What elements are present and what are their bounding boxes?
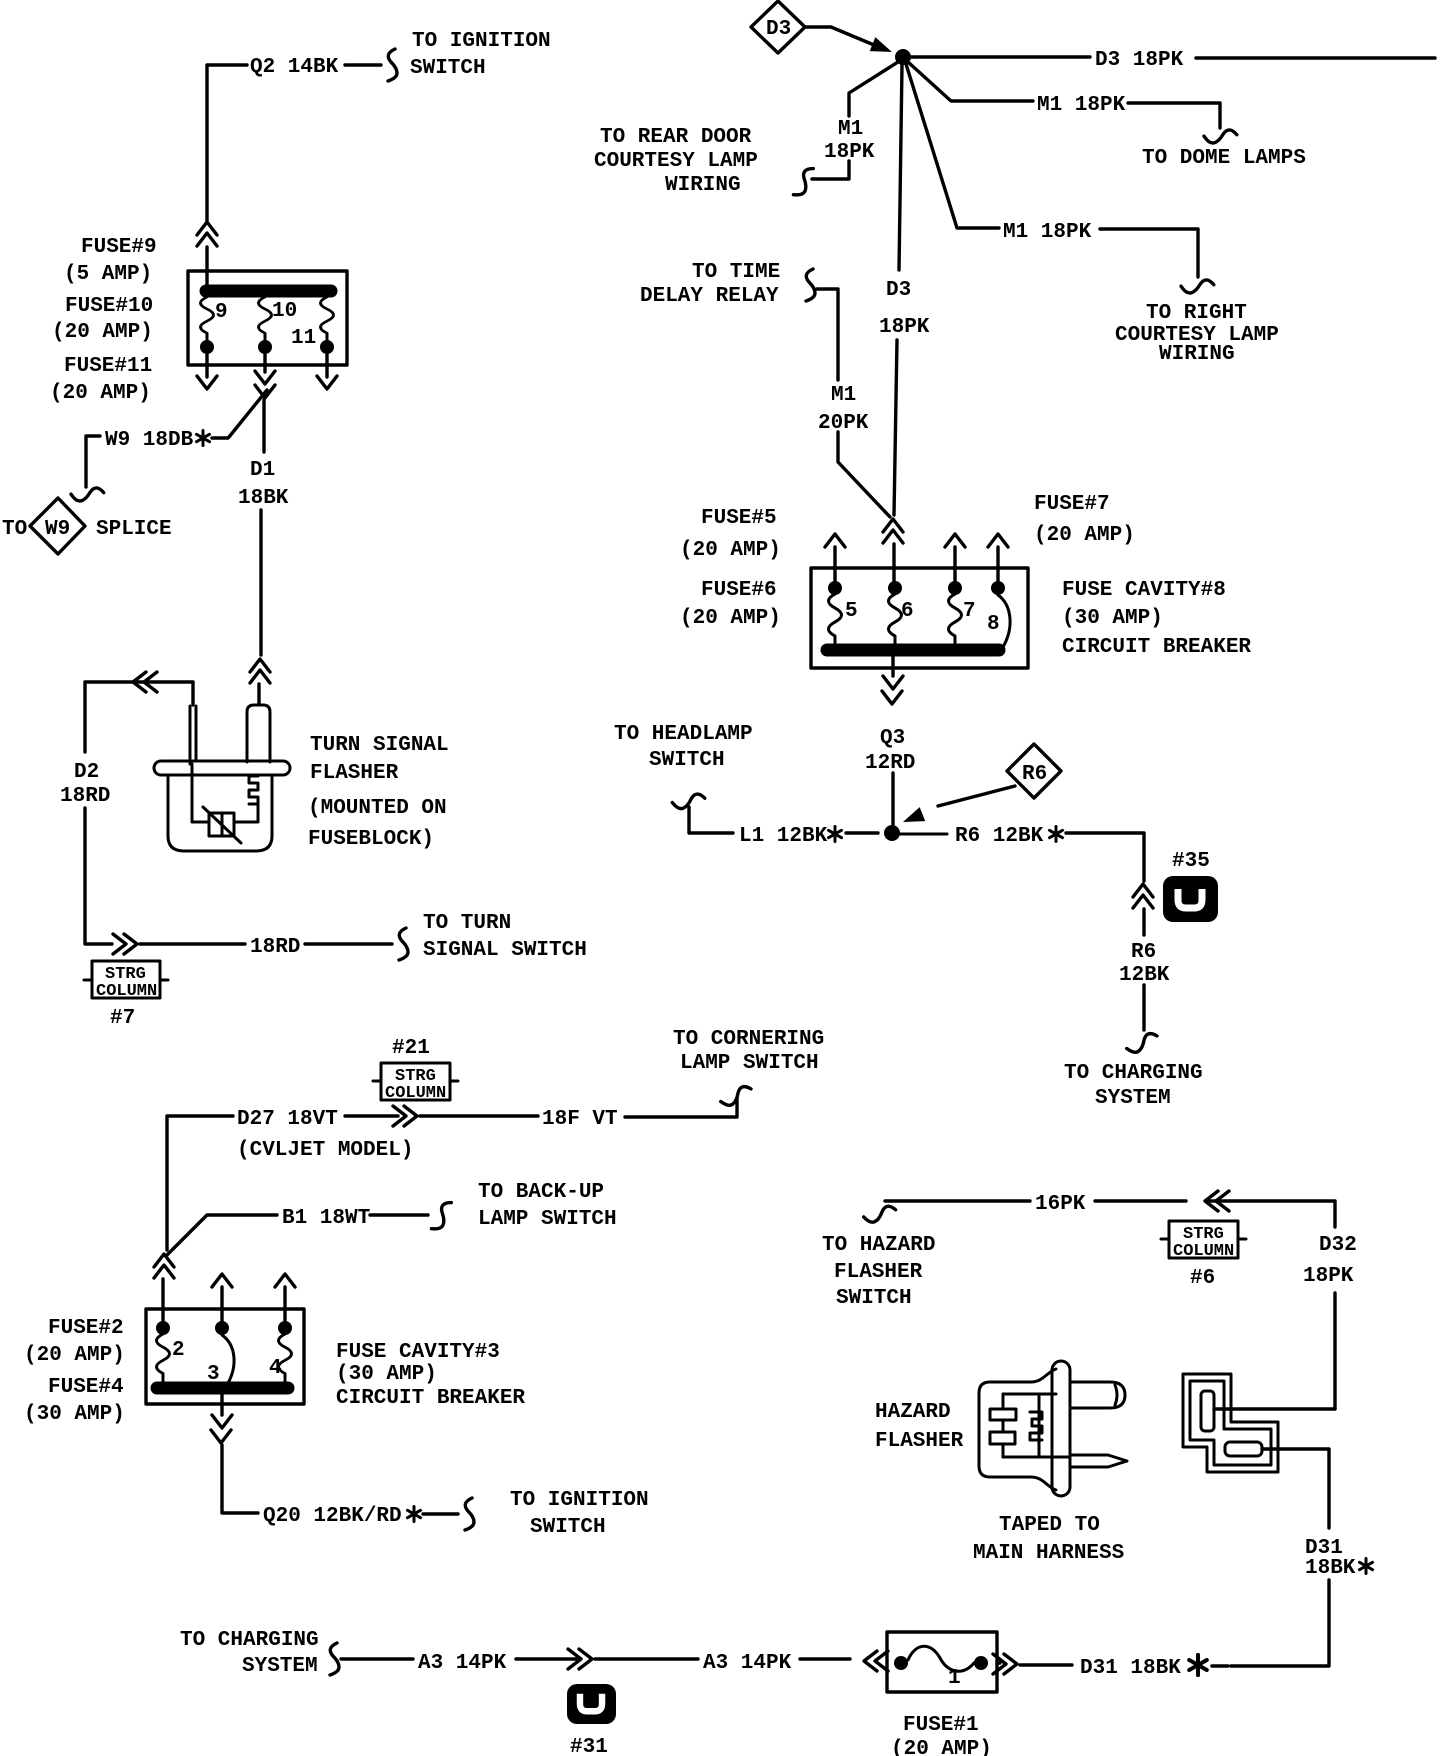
wire Q3 12RD	[891, 657, 894, 676]
wire 16PK to hazard flasher switch	[885, 1199, 1030, 1202]
svg-text:TAPED TO: TAPED TO	[999, 1514, 1100, 1537]
svg-text:FUSE#2: FUSE#2	[48, 1317, 124, 1340]
svg-text:R6: R6	[1022, 763, 1047, 786]
hazard flasher body	[979, 1369, 1056, 1490]
svg-text:18RD: 18RD	[60, 785, 110, 808]
svg-text:2: 2	[172, 1339, 185, 1362]
wire D2 18RD from flasher	[85, 682, 193, 752]
wire R6 12BK right	[900, 833, 947, 836]
svg-text:COLUMN: COLUMN	[96, 982, 157, 1001]
fuse block 9-11 bus bar	[206, 285, 331, 298]
turn signal flasher body	[154, 761, 290, 775]
svg-text:18PK: 18PK	[879, 316, 930, 339]
svg-text:TO: TO	[2, 518, 27, 541]
svg-text:Q20 12BK/RD: Q20 12BK/RD	[263, 1505, 402, 1528]
svg-text:FLASHER: FLASHER	[834, 1261, 923, 1284]
svg-text:FUSE#11: FUSE#11	[64, 355, 152, 378]
svg-text:D3: D3	[766, 18, 791, 41]
fuse 4 feed arrow	[283, 1287, 286, 1321]
connector box STRG COLUMN #7	[92, 961, 160, 998]
wire M1 18PK to rear door courtesy lamp wiring	[849, 62, 898, 116]
fuse 7 feed arrow	[953, 547, 956, 581]
fuse block 9-11 outline	[188, 271, 347, 365]
connector chevron at fuse 6	[883, 519, 903, 543]
svg-text:SIGNAL SWITCH: SIGNAL SWITCH	[423, 939, 587, 962]
svg-text:FUSE#7: FUSE#7	[1034, 493, 1110, 516]
svg-text:COURTESY LAMP: COURTESY LAMP	[594, 150, 758, 173]
circuit breaker cavity 8 element	[991, 581, 1005, 595]
junction node D3	[895, 49, 911, 65]
svg-text:7: 7	[963, 600, 976, 623]
cavity 8 feed arrow	[996, 547, 999, 581]
svg-text:FUSE#4: FUSE#4	[48, 1376, 124, 1399]
svg-text:16PK: 16PK	[1035, 1193, 1086, 1216]
svg-text:R6 12BK: R6 12BK	[955, 825, 1044, 848]
splice pointer R6	[1007, 744, 1061, 798]
svg-text:W9: W9	[45, 518, 70, 541]
svg-text:FLASHER: FLASHER	[310, 762, 399, 785]
svg-text:A3 14PK: A3 14PK	[703, 1652, 792, 1675]
svg-text:TO RIGHT: TO RIGHT	[1146, 302, 1247, 325]
svg-text:TO CORNERING: TO CORNERING	[673, 1028, 824, 1051]
wire Q2 14BK to ignition switch	[207, 65, 247, 222]
svg-text:D31 18BK: D31 18BK	[1080, 1657, 1181, 1680]
svg-text:FUSEBLOCK): FUSEBLOCK)	[308, 828, 434, 851]
svg-text:M1: M1	[831, 384, 856, 407]
fuse block 2-4 outline	[146, 1309, 304, 1404]
svg-text:D32: D32	[1319, 1234, 1357, 1257]
svg-text:FUSE#5: FUSE#5	[701, 507, 777, 530]
fuse 4 element	[278, 1321, 292, 1335]
fuse 5 element	[828, 581, 842, 595]
svg-text:#7: #7	[110, 1007, 135, 1030]
svg-text:D1: D1	[250, 459, 275, 482]
grommet icon #31	[567, 1684, 616, 1724]
svg-text:M1: M1	[838, 118, 863, 141]
wire D31 18BK from fuse 1	[997, 1661, 1000, 1664]
svg-text:SPLICE: SPLICE	[96, 518, 172, 541]
svg-text:#35: #35	[1172, 850, 1210, 873]
svg-text:18BK: 18BK	[238, 487, 289, 510]
fuse 7 element	[948, 581, 962, 595]
fuse block 5-8 bus bar	[827, 644, 999, 657]
svg-text:11: 11	[291, 327, 316, 350]
svg-text:FUSE CAVITY#8: FUSE CAVITY#8	[1062, 579, 1226, 602]
wire W9 18DB tap	[229, 390, 267, 437]
cavity 3 feed arrow	[220, 1287, 223, 1321]
svg-text:(5 AMP): (5 AMP)	[64, 263, 152, 286]
hazard flasher bottom prong	[1070, 1455, 1127, 1467]
fuse 6 element	[888, 581, 902, 595]
wire D27 18VT to cornering lamp switch	[167, 1116, 233, 1250]
svg-text:Q3: Q3	[880, 727, 905, 750]
fuse 2 element	[156, 1321, 170, 1335]
hazard flasher internal terminals	[1038, 1394, 1041, 1457]
connector chevron to steering column	[113, 934, 137, 954]
svg-text:(20 AMP): (20 AMP)	[891, 1738, 992, 1756]
svg-text:WIRING: WIRING	[665, 174, 741, 197]
fuse 10 element	[259, 297, 272, 340]
svg-text:(CVLJET MODEL): (CVLJET MODEL)	[237, 1139, 413, 1162]
flasher right pin	[247, 705, 270, 762]
fuse 10 output wire D1	[263, 354, 266, 372]
svg-text:3: 3	[207, 1363, 220, 1386]
wire M1 18PK to dome lamps	[908, 62, 1033, 101]
fuse block 2-4 bus bar	[157, 1382, 288, 1395]
connector chevron #35	[1133, 884, 1153, 908]
svg-text:M1 18PK: M1 18PK	[1037, 94, 1126, 117]
hazard flasher mounting flange	[1052, 1361, 1070, 1496]
svg-text:TO HAZARD: TO HAZARD	[822, 1234, 935, 1257]
svg-text:9: 9	[215, 301, 228, 324]
connector chevron steering column #6	[1205, 1191, 1229, 1211]
svg-text:D3 18PK: D3 18PK	[1095, 49, 1184, 72]
svg-text:18PK: 18PK	[1303, 1265, 1354, 1288]
svg-text:(20 AMP): (20 AMP)	[50, 382, 151, 405]
flasher heater coil	[249, 776, 258, 804]
svg-text:W9 18DB: W9 18DB	[105, 429, 194, 452]
connector box STRG COLUMN #6	[1169, 1221, 1238, 1258]
svg-text:(20 AMP): (20 AMP)	[24, 1344, 125, 1367]
wire M1 18PK to right courtesy lamp wiring	[906, 64, 999, 228]
svg-text:LAMP SWITCH: LAMP SWITCH	[478, 1208, 617, 1231]
svg-text:FUSE#6: FUSE#6	[701, 579, 777, 602]
svg-text:(20 AMP): (20 AMP)	[52, 321, 153, 344]
connector chevron #31	[568, 1649, 592, 1669]
svg-text:R6: R6	[1131, 941, 1156, 964]
grommet icon #35	[1163, 876, 1218, 922]
svg-text:A3 14PK: A3 14PK	[418, 1652, 507, 1675]
svg-text:(30 AMP): (30 AMP)	[336, 1363, 437, 1386]
svg-text:COLUMN: COLUMN	[1173, 1242, 1234, 1261]
svg-text:18RD: 18RD	[250, 936, 300, 959]
svg-text:D2: D2	[74, 761, 99, 784]
svg-text:TO DOME LAMPS: TO DOME LAMPS	[1142, 147, 1306, 170]
break to W9 splice	[71, 486, 104, 503]
wire Q20 12BK/RD to ignition switch	[220, 1395, 223, 1415]
svg-text:4: 4	[269, 1357, 282, 1380]
svg-text:(30 AMP): (30 AMP)	[24, 1403, 125, 1426]
harness break to turn signal switch	[399, 928, 408, 960]
flasher left pin	[190, 706, 196, 764]
svg-text:D27 18VT: D27 18VT	[237, 1108, 338, 1131]
svg-text:(20 AMP): (20 AMP)	[680, 607, 781, 630]
svg-text:20PK: 20PK	[818, 412, 869, 435]
svg-text:D3: D3	[886, 279, 911, 302]
connector box STRG COLUMN #21	[381, 1063, 450, 1100]
svg-text:L1 12BK: L1 12BK	[739, 825, 828, 848]
svg-text:8: 8	[987, 613, 1000, 636]
svg-text:SYSTEM: SYSTEM	[242, 1655, 318, 1678]
wire D1 18BK	[259, 510, 262, 655]
wire L1 12BK to headlamp switch	[846, 831, 878, 834]
svg-text:18F VT: 18F VT	[542, 1108, 618, 1131]
svg-text:M1 18PK: M1 18PK	[1003, 221, 1092, 244]
svg-text:FLASHER: FLASHER	[875, 1430, 964, 1453]
svg-text:TO BACK-UP: TO BACK-UP	[478, 1181, 604, 1204]
svg-text:(20 AMP): (20 AMP)	[1034, 524, 1135, 547]
fuse 9 output arrow	[205, 354, 208, 377]
svg-text:#21: #21	[392, 1037, 430, 1060]
svg-text:Q2 14BK: Q2 14BK	[250, 56, 339, 79]
splice pointer D3	[751, 1, 805, 53]
svg-text:TO TIME: TO TIME	[692, 261, 780, 284]
svg-text:DELAY RELAY: DELAY RELAY	[640, 285, 779, 308]
svg-text:10: 10	[272, 300, 297, 323]
svg-text:TURN SIGNAL: TURN SIGNAL	[310, 734, 449, 757]
svg-text:LAMP SWITCH: LAMP SWITCH	[680, 1052, 819, 1075]
svg-text:SYSTEM: SYSTEM	[1095, 1087, 1171, 1110]
svg-text:#6: #6	[1190, 1267, 1215, 1290]
svg-text:TO HEADLAMP: TO HEADLAMP	[614, 723, 753, 746]
harness break to ignition switch	[388, 49, 397, 81]
fuse 11 output arrow	[325, 354, 328, 377]
svg-text:TO IGNITION: TO IGNITION	[412, 30, 551, 53]
svg-text:TO TURN: TO TURN	[423, 912, 511, 935]
hazard flasher terminal clips	[1030, 1412, 1042, 1440]
svg-text:CIRCUIT BREAKER: CIRCUIT BREAKER	[336, 1387, 525, 1410]
svg-text:FUSE#10: FUSE#10	[65, 295, 153, 318]
hazard flasher top prong	[1070, 1382, 1125, 1408]
svg-text:6: 6	[901, 600, 914, 623]
svg-text:1: 1	[948, 1667, 961, 1690]
hazard flasher connector outline	[1183, 1374, 1278, 1472]
junction node L1/R6	[884, 825, 900, 841]
svg-text:TO CHARGING: TO CHARGING	[180, 1629, 319, 1652]
svg-text:FUSE#9: FUSE#9	[81, 236, 157, 259]
svg-text:12RD: 12RD	[865, 752, 915, 775]
connector chevron at fuse 2 feed	[154, 1254, 174, 1278]
fuse 9 element	[201, 297, 214, 340]
svg-text:FUSE CAVITY#3: FUSE CAVITY#3	[336, 1341, 500, 1364]
wire D31 18BK from connector	[1262, 1449, 1329, 1528]
svg-text:TO IGNITION: TO IGNITION	[510, 1489, 649, 1512]
fuse 11 element	[321, 297, 334, 340]
fuse 1 holder	[887, 1632, 997, 1692]
svg-text:MAIN HARNESS: MAIN HARNESS	[973, 1542, 1124, 1565]
wire D3 18PK down to fuse 6	[899, 65, 902, 270]
connector slot D32	[1201, 1391, 1214, 1431]
splice symbol W9	[30, 498, 85, 554]
svg-text:FUSE#1: FUSE#1	[903, 1714, 979, 1737]
svg-text:CIRCUIT BREAKER: CIRCUIT BREAKER	[1062, 636, 1251, 659]
svg-text:18BK: 18BK	[1305, 1557, 1356, 1580]
svg-text:5: 5	[845, 600, 858, 623]
svg-text:(30 AMP): (30 AMP)	[1062, 607, 1163, 630]
wire D32 into connector	[1214, 1407, 1335, 1410]
wire D3 18PK right	[911, 55, 1090, 58]
svg-text:COLUMN: COLUMN	[385, 1084, 446, 1103]
svg-text:(MOUNTED ON: (MOUNTED ON	[308, 797, 447, 820]
wire B1 18WT to back-up lamp switch	[167, 1215, 277, 1255]
svg-text:SWITCH: SWITCH	[410, 57, 486, 80]
svg-text:TO CHARGING: TO CHARGING	[1064, 1062, 1203, 1085]
svg-text:HAZARD: HAZARD	[875, 1401, 951, 1424]
connector chevron on Q2 wire	[197, 222, 217, 246]
svg-text:#31: #31	[570, 1736, 608, 1756]
svg-text:SWITCH: SWITCH	[836, 1287, 912, 1310]
connector chevron at fuse 1	[864, 1651, 888, 1671]
fuse block 5-8 outline	[811, 568, 1028, 668]
fuse 5 feed arrow	[833, 547, 836, 581]
circuit breaker cavity 3 element	[215, 1321, 229, 1335]
svg-text:SWITCH: SWITCH	[649, 749, 725, 772]
svg-text:WIRING: WIRING	[1159, 343, 1235, 366]
connector slot D31	[1225, 1442, 1262, 1456]
svg-text:TO REAR DOOR: TO REAR DOOR	[600, 126, 752, 149]
flasher resistor element	[209, 813, 234, 836]
svg-text:(20 AMP): (20 AMP)	[680, 539, 781, 562]
svg-text:B1 18WT: B1 18WT	[282, 1207, 370, 1230]
svg-text:SWITCH: SWITCH	[530, 1516, 606, 1539]
